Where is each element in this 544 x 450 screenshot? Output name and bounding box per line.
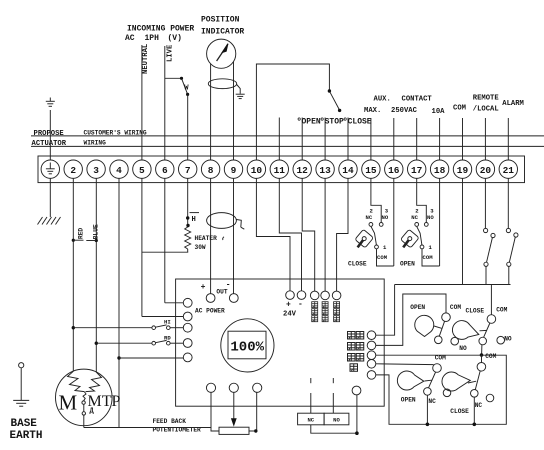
wire terminal 21 riser [507, 118, 509, 160]
label BASE EARTH [10, 418, 43, 442]
svg-text:COM: COM [453, 104, 466, 112]
terminal 9 [224, 160, 242, 178]
switch local/alarm (t21) [506, 179, 518, 285]
wire board to NC box [310, 393, 312, 413]
label OPEN STOP CLOSE [297, 118, 372, 127]
svg-text:AC: AC [125, 34, 135, 43]
wire terminal 20 riser [484, 118, 486, 160]
svg-text:100%: 100% [230, 340, 264, 356]
svg-text:COM: COM [423, 254, 434, 261]
svg-text:NEUTRAL: NEUTRAL [142, 44, 150, 74]
aux switch OPEN: wire t17 to NO contact [417, 179, 427, 223]
svg-text:HEATER: HEATER [195, 235, 218, 242]
wire terminal 15 riser [370, 118, 372, 160]
svg-text:CLOSE: CLOSE [348, 260, 367, 267]
wire terminal 13 riser [324, 118, 326, 160]
board signal terminal a [310, 291, 319, 300]
svg-text:FEED BACK: FEED BACK [153, 418, 187, 425]
wire pot wiper arrow [231, 392, 237, 426]
wire close-NC to bottom loop [473, 397, 477, 426]
svg-text:W: W [184, 85, 189, 93]
wire terminal 16 riser [393, 118, 395, 160]
terminal 15 [362, 160, 380, 178]
label + OUT - [201, 281, 231, 296]
terminal 17 [408, 160, 426, 178]
svg-text:CLOSE: CLOSE [466, 308, 485, 315]
svg-text:250VAC: 250VAC [391, 107, 418, 115]
svg-text:AUX.: AUX. [374, 96, 391, 104]
wire terminal 13 to board input [324, 179, 326, 292]
wire terminal 6 down to board [164, 179, 166, 303]
ground (top, above terminal 1) [46, 98, 55, 160]
svg-text:(V): (V) [168, 34, 182, 43]
label HEATER 30W [195, 235, 218, 251]
label limit rows (chinese) [348, 332, 364, 372]
selector switch blade [328, 89, 342, 112]
svg-text:19: 19 [457, 165, 469, 176]
cam switch CLOSE (upper right) [452, 307, 511, 345]
terminal 14 [339, 160, 357, 178]
wire junction to close-NC COM [481, 355, 483, 362]
wire NC box to board bottom terminal 4 [311, 395, 359, 435]
svg-text:ºCLOSE: ºCLOSE [343, 118, 372, 127]
svg-text:NO: NO [333, 417, 340, 424]
label signal column b (chinese) [322, 302, 328, 322]
svg-text:4: 4 [116, 165, 122, 176]
board OUT- terminal [229, 294, 238, 303]
resistor heater 30W [185, 227, 191, 249]
board AC POWER terminal 2 [183, 312, 192, 321]
junction terminal2/HI [72, 326, 75, 329]
board bottom terminal 1 [206, 383, 215, 392]
svg-text:NC: NC [307, 417, 314, 424]
board bottom terminal 4 [352, 386, 361, 395]
svg-text:2: 2 [70, 165, 76, 176]
svg-text:REMOTE: REMOTE [473, 95, 500, 103]
tag BLUE [86, 224, 99, 242]
svg-text:NC: NC [366, 214, 373, 221]
wire terminal 19 riser [462, 118, 464, 160]
svg-text:COM: COM [450, 304, 461, 311]
svg-text:BLUE: BLUE [93, 224, 100, 239]
wire terminal 14 riser [347, 118, 349, 160]
wire open-NC to bottom loop [426, 395, 430, 426]
contact HI (t2 to board) [73, 318, 183, 329]
wire terminal 17 riser [416, 118, 418, 160]
wires board bottom circles feed [311, 378, 334, 383]
svg-text:INCOMING POWER: INCOMING POWER [127, 25, 194, 34]
remote/local rail [395, 284, 511, 286]
svg-text:8: 8 [208, 165, 214, 176]
svg-text:M: M [59, 391, 78, 415]
svg-text:5: 5 [139, 165, 145, 176]
terminal 12 [293, 160, 311, 178]
svg-text:/LOCAL: /LOCAL [473, 105, 499, 113]
wire live riser (terminal 6) [164, 46, 166, 160]
svg-text:ALARM: ALARM [502, 100, 524, 108]
label + - 24V [283, 300, 303, 319]
op indicator meter U1 [207, 39, 236, 68]
wire terminal 12 riser [301, 118, 303, 160]
svg-text:CUSTOMER'S WIRING: CUSTOMER'S WIRING [84, 130, 147, 137]
switch W (live to terminal 7) [165, 77, 189, 96]
svg-text:AC POWER: AC POWER [195, 308, 225, 315]
svg-text:H: H [192, 216, 196, 224]
board limit terminal 5 [367, 371, 376, 380]
svg-text:6: 6 [162, 165, 168, 176]
label signal column a (chinese) [312, 302, 318, 322]
label REMOTE/LOCAL [473, 95, 500, 114]
terminal 8 [201, 160, 219, 178]
svg-text:INDICATOR: INDICATOR [201, 28, 244, 37]
board signal terminal b [321, 291, 330, 300]
svg-text:OPEN: OPEN [400, 260, 415, 267]
wire board to NO box [332, 393, 334, 413]
wire limit1 to remote rail [376, 285, 395, 336]
wire limit2 to OPEN cam COM [376, 294, 446, 345]
board 24V+ terminal [286, 291, 295, 300]
wire terminal 7 riser [187, 95, 189, 160]
wire terminal 9 riser [233, 62, 235, 160]
svg-text:OUT: OUT [216, 289, 227, 296]
aux switch CLOSE: wire t15 to NO contact [371, 179, 381, 223]
wire t4 to board input 5 [119, 357, 183, 359]
wire terminal 9 to OUT- [233, 179, 235, 294]
selector common wire from terminal 10 [256, 64, 329, 160]
terminal 1 (earth) [41, 160, 59, 178]
terminal 13 [316, 160, 334, 178]
chassis earth (hatched) [38, 217, 61, 225]
svg-text:RD: RD [164, 334, 171, 341]
board 24V- terminal [297, 291, 306, 300]
cam switch OPEN (upper left) [410, 304, 467, 352]
wire terminal 11 to board 24V- [279, 179, 301, 291]
svg-text:ºSTOP: ºSTOP [320, 118, 344, 127]
wire terminal 10 to board 24V+ [256, 179, 290, 291]
motor M [56, 369, 121, 426]
wire terminal 11 riser [278, 118, 280, 160]
svg-text:COM: COM [496, 307, 507, 314]
capacitor/winding ellipse (t8-t9) [207, 213, 245, 240]
svg-text:15: 15 [365, 165, 377, 176]
wire terminal 4 down [118, 179, 120, 428]
svg-text:COM: COM [485, 353, 496, 360]
svg-text:NC: NC [475, 402, 483, 409]
control board outline [176, 279, 385, 406]
svg-text:20: 20 [480, 165, 492, 176]
wire terminal 8 riser [210, 64, 212, 160]
boundary line customer wiring [31, 135, 544, 137]
aux switch CLOSE common wire to t16 [377, 249, 394, 266]
wire t5 to AC POWER circle 2 [142, 316, 184, 318]
svg-text:24V: 24V [283, 311, 297, 319]
svg-text:EARTH: EARTH [10, 430, 43, 442]
svg-text:+: + [286, 301, 291, 310]
wire terminal 18 down [439, 179, 441, 267]
cam switch OPEN NC (lower left) [397, 354, 450, 405]
label POSITION INDICATOR [201, 16, 244, 37]
indicator coupling ellipse [208, 79, 236, 89]
svg-text:3: 3 [93, 165, 99, 176]
label AUX. MAX. CONTACT 250VAC 10A [364, 96, 445, 116]
svg-text:ACTUATOR: ACTUATOR [32, 140, 67, 148]
base earth electrode [13, 363, 29, 407]
svg-text:9: 9 [231, 165, 237, 176]
aux switch CLOSE cam [355, 229, 374, 248]
tag H [186, 213, 199, 228]
board limit terminal 4 [367, 360, 376, 369]
wire limit4 to open-NC COM [376, 363, 434, 366]
wire CLOSE cam follower to junction [481, 345, 483, 355]
terminal 18 [430, 160, 448, 178]
svg-text:BASE: BASE [11, 418, 38, 430]
thermal protector MTP [82, 392, 86, 428]
svg-text:NC: NC [411, 214, 418, 221]
wire neutral riser (terminal 5) [141, 45, 143, 160]
svg-text:PROPOSE: PROPOSE [34, 130, 65, 138]
svg-text:10: 10 [251, 165, 263, 176]
terminal 3 [87, 160, 105, 178]
board input terminal 4 [183, 339, 192, 348]
svg-text:MAX.: MAX. [364, 107, 381, 115]
wire t6 to AC POWER circle 1 [165, 302, 184, 304]
terminal 16 [385, 160, 403, 178]
relay box NO [324, 413, 349, 425]
svg-text:10A: 10A [432, 108, 446, 116]
feedback potentiometer [219, 427, 249, 434]
svg-text:LIVE: LIVE [166, 44, 174, 62]
junction terminal3/RD [95, 342, 98, 345]
terminal 6 [156, 160, 174, 178]
svg-text:ºOPEN: ºOPEN [297, 118, 321, 127]
svg-text:17: 17 [411, 165, 423, 176]
svg-text:1PH: 1PH [145, 34, 160, 43]
ground (indicator) [236, 85, 245, 99]
terminal 19 [453, 160, 471, 178]
rail t5/t6/heater [142, 251, 188, 253]
svg-text:13: 13 [319, 165, 331, 176]
label ACTUATOR WIRING [32, 140, 107, 148]
junction terminal4 [117, 356, 120, 359]
label FEED BACK POTENTIOMETER [153, 418, 202, 434]
svg-text:COM: COM [435, 354, 446, 361]
wire terminal 8 to OUT+ [210, 179, 212, 294]
aux switch CLOSE contacts [369, 223, 383, 249]
svg-text:16: 16 [388, 165, 400, 176]
wire terminal 7 heater branch [187, 179, 189, 228]
wire terminal 5 down to board [141, 179, 143, 317]
svg-text:7: 7 [185, 165, 191, 176]
svg-text:OPEN: OPEN [401, 397, 416, 404]
board signal terminal c [332, 291, 341, 300]
svg-text:COM: COM [377, 254, 388, 261]
switch remote (t20) [484, 179, 496, 285]
board limit terminal 3 [367, 351, 376, 360]
terminal strip [38, 156, 525, 183]
wire terminal 12 to board input [302, 179, 315, 292]
aux switch OPEN contacts [415, 223, 428, 249]
aux switch OPEN labels 2 NC 3 NO 1 COM [411, 208, 434, 261]
svg-text:POSITION: POSITION [201, 16, 240, 25]
svg-text:WIRING: WIRING [84, 140, 107, 147]
wire pot right [249, 392, 258, 432]
board input terminal 3 [183, 323, 192, 332]
terminal 5 [133, 160, 151, 178]
svg-text:CLOSE: CLOSE [450, 408, 469, 415]
wire terminal 14 to board input [337, 179, 348, 292]
label PROPOSE / CUSTOMER'S WIRING [34, 130, 147, 138]
board limit terminal 2 [367, 341, 376, 350]
svg-text:NO: NO [382, 214, 389, 221]
wire terminal 18 riser [439, 118, 441, 160]
svg-text:30W: 30W [195, 244, 206, 251]
boundary line actuator wiring [31, 145, 544, 147]
wire motor/t4 to pot left [84, 427, 211, 429]
svg-text:18: 18 [434, 165, 446, 176]
svg-text:12: 12 [296, 165, 308, 176]
svg-text:NO: NO [504, 336, 512, 343]
contact RD (t3 to board) [96, 334, 183, 345]
terminal 4 [110, 160, 128, 178]
display gauge 100% [221, 319, 274, 372]
wire terminal 2 to motor [72, 179, 74, 372]
svg-text:-: - [226, 281, 231, 290]
aux switch CLOSE labels 2 NC 3 NO 1 COM [366, 208, 389, 261]
wire terminal 16 down [393, 179, 395, 267]
board AC POWER terminal 1 [183, 298, 192, 307]
svg-text:14: 14 [342, 165, 354, 176]
svg-text:+: + [201, 283, 206, 292]
node junction limit3 [480, 353, 484, 357]
wire rail to CLOSE cam COM [490, 285, 492, 315]
svg-text:OPEN: OPEN [410, 304, 425, 311]
terminal 2 [64, 160, 82, 178]
terminal 20 [476, 160, 494, 178]
svg-text:RED: RED [77, 228, 84, 239]
svg-text:HI: HI [164, 318, 171, 325]
terminal 21 [499, 160, 517, 178]
svg-text:NC: NC [428, 398, 436, 405]
board input terminal 5 [183, 353, 192, 362]
aux switch OPEN common wire to t18 [422, 249, 440, 266]
svg-text:-: - [298, 300, 303, 309]
svg-text:11: 11 [274, 165, 286, 176]
cam switch CLOSE NC (lower right) [442, 353, 497, 415]
wire pot left [211, 392, 219, 431]
terminal 7 [179, 160, 197, 178]
svg-text:21: 21 [503, 165, 515, 176]
aux switch OPEN cam [401, 229, 420, 248]
terminal 10 [247, 160, 265, 178]
board limit terminal 1 [367, 331, 376, 340]
relay box NC [298, 413, 325, 425]
terminal 11 [270, 160, 288, 178]
board OUT+ terminal [206, 294, 215, 303]
wire terminal 1 to chassis earth [49, 179, 51, 218]
label INCOMING POWER AC 1PH (V) [125, 25, 194, 44]
board bottom terminal 2 (wiper) [229, 383, 238, 392]
board bottom terminal 3 [253, 383, 262, 392]
wire terminal 3 to motor [95, 179, 97, 373]
svg-text:NO: NO [459, 345, 467, 352]
wire limit3 loop [376, 355, 507, 424]
svg-text:NO: NO [427, 214, 434, 221]
tag RED [72, 228, 85, 242]
svg-text:CONTACT: CONTACT [402, 96, 433, 104]
wire terminal 19 (COM) down to rail [462, 179, 464, 285]
label signal column c (chinese) [334, 302, 340, 322]
